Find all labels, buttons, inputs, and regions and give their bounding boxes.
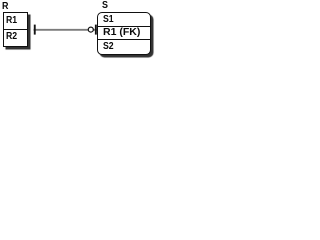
entity R box [3, 12, 28, 47]
attribute R1 (FK) [103, 28, 140, 38]
divider S non-key [98, 39, 150, 40]
circle (optionality) [88, 27, 93, 32]
tick near parent R [34, 25, 36, 35]
attribute R2 [6, 32, 17, 42]
attribute S1 [103, 15, 114, 25]
relationship connector [0, 0, 156, 67]
attribute R1 [6, 16, 17, 26]
tick near child S [95, 25, 97, 35]
divider S key [98, 26, 150, 27]
wire: relationship line [34, 29, 98, 31]
attribute S2 [103, 42, 114, 52]
entity S box (rounded = dependent) [97, 12, 151, 55]
divider R [4, 29, 27, 30]
entity S title [102, 0, 108, 11]
entity R title [2, 1, 8, 12]
